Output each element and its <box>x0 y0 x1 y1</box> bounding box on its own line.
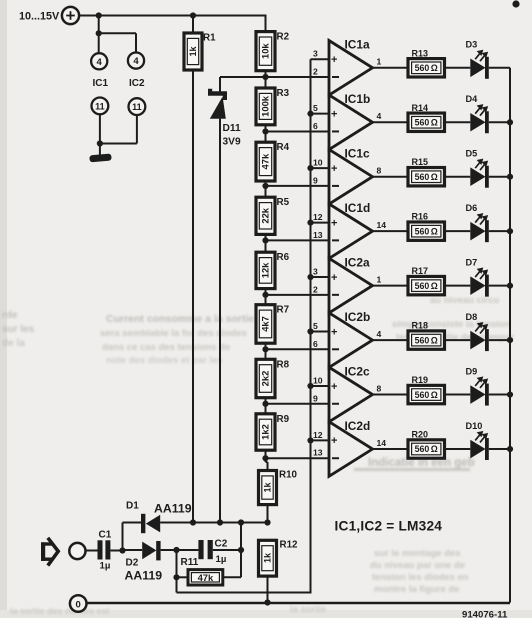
node: drawing number 914076-11 <box>462 610 508 618</box>
svg-text:R19: R19 <box>412 375 429 385</box>
svg-text:simple consiste la tension: simple consiste la tension <box>392 319 510 330</box>
svg-text:4k7: 4k7 <box>260 316 271 332</box>
svg-text:IC1a: IC1a <box>345 38 371 52</box>
junction: node A (detector output) <box>173 547 179 553</box>
svg-text:+: + <box>331 381 337 393</box>
svg-text:R2: R2 <box>277 32 290 43</box>
wire: LED D3 cathode to right bus <box>489 67 510 69</box>
resistor R4 <box>256 131 290 185</box>
wire: LED D8 cathode to right bus <box>489 337 513 343</box>
wire: - input pin 9 of IC2c from ladder tap <box>266 393 330 404</box>
wire: + input pin 12 of IC1d <box>307 212 329 226</box>
junction: node B riser / detector line <box>238 519 244 525</box>
wire: R20 to LED D10 <box>445 448 471 450</box>
svg-text:47k: 47k <box>198 572 214 583</box>
junction: zener / detector line <box>217 519 223 525</box>
svg-text:13: 13 <box>313 448 323 458</box>
svg-text:+: + <box>331 435 337 447</box>
wire: + input pin 5 of IC1b <box>307 103 329 117</box>
wire: - input pin 2 of IC1a from ladder tap <box>266 67 330 78</box>
svg-text:C1: C1 <box>99 530 112 541</box>
svg-text:IC2: IC2 <box>129 78 145 89</box>
svg-text:R6: R6 <box>277 252 290 263</box>
svg-text:D11: D11 <box>223 123 241 134</box>
wire: D2 cathode to node A <box>161 549 177 551</box>
wire: zener anode to D1 output line <box>219 119 221 523</box>
op-amp IC1c <box>329 147 373 205</box>
svg-text:100k: 100k <box>260 95 271 117</box>
svg-text:11: 11 <box>95 101 105 111</box>
svg-text:R7: R7 <box>277 305 290 316</box>
svg-text:6: 6 <box>313 339 318 349</box>
svg-text:1k: 1k <box>188 46 198 57</box>
zener diode D11 3V9 <box>208 89 241 148</box>
svg-text:2: 2 <box>313 284 318 294</box>
svg-text:10k: 10k <box>260 43 271 59</box>
svg-text:47k: 47k <box>260 153 271 169</box>
svg-text:IC1: IC1 <box>93 78 109 89</box>
svg-text:4: 4 <box>377 329 382 339</box>
resistor R3 <box>256 77 290 131</box>
svg-text:11: 11 <box>132 102 142 112</box>
op-amp IC2a <box>329 255 373 313</box>
wire: ladder top tap to zener D11 <box>220 77 266 92</box>
svg-text:rde: rde <box>2 310 18 321</box>
svg-text:R15: R15 <box>412 157 429 167</box>
svg-text:12k: 12k <box>260 262 271 278</box>
resistor R15 560 ohm <box>408 157 445 186</box>
resistor R10 <box>259 458 298 522</box>
svg-text:1k: 1k <box>263 552 273 563</box>
pin: IC2 pin 11 (GND) <box>129 98 146 115</box>
svg-text:8: 8 <box>377 383 382 393</box>
junction: +rail / IC supply branch <box>96 12 102 18</box>
svg-text:560 Ω: 560 Ω <box>415 281 438 291</box>
op-amp IC1b <box>329 92 373 150</box>
wire: output pin 4 of IC1b <box>373 111 409 122</box>
svg-text:4: 4 <box>377 111 382 121</box>
svg-text:6: 6 <box>313 121 318 131</box>
svg-text:D7: D7 <box>466 257 478 267</box>
svg-text:AA119: AA119 <box>125 569 163 583</box>
wire: R11 right to node B riser <box>223 523 241 578</box>
svg-text:R13: R13 <box>412 48 429 58</box>
wire: - input pin 2 of IC2a from ladder tap <box>266 284 330 295</box>
wire: output pin 8 of IC2c <box>373 383 409 394</box>
wire: - input pin 13 of IC2d from ladder tap <box>266 448 330 459</box>
svg-text:4: 4 <box>97 57 103 68</box>
svg-text:+: + <box>331 272 337 284</box>
wire: R19 to LED D9 <box>445 394 471 396</box>
wire: R15 to LED D5 <box>445 176 471 178</box>
svg-text:D8: D8 <box>466 312 478 322</box>
wire: R14 to LED D4 <box>445 121 471 123</box>
svg-text:note des diodes et par les: note des diodes et par les <box>106 355 223 366</box>
op-amp IC1 (supply designator) <box>93 78 109 89</box>
LED D6 <box>466 203 489 242</box>
svg-text:au niveau circu: au niveau circu <box>430 295 499 306</box>
op-amp IC2 (supply designator) <box>129 78 145 89</box>
capacitor C2 1u <box>177 539 228 566</box>
junction: ladder tap R9 bottom (node to pin 13) <box>262 455 268 461</box>
svg-text:+: + <box>331 163 337 175</box>
svg-text:1k2: 1k2 <box>260 424 271 440</box>
wire: R18 to LED D8 <box>445 339 471 341</box>
svg-text:IC2d: IC2d <box>345 419 371 433</box>
op-amp IC1a <box>329 38 373 96</box>
svg-text:de la: de la <box>2 338 25 349</box>
svg-text:0: 0 <box>76 599 81 610</box>
wire: LED D9 cathode to right bus <box>489 391 513 397</box>
svg-text:IC2c: IC2c <box>345 364 371 378</box>
svg-text:5: 5 <box>313 103 318 113</box>
wire: LED cathode bus to ground line <box>509 68 511 603</box>
LED D9 <box>466 366 489 405</box>
svg-text:D6: D6 <box>466 203 478 213</box>
svg-text:10: 10 <box>313 375 323 385</box>
wire: R17 to LED D7 <box>445 285 471 287</box>
resistor R7 <box>256 295 290 349</box>
svg-text:560 Ω: 560 Ω <box>415 226 438 236</box>
node: + supply terminal <box>62 7 79 24</box>
wire: output pin 8 of IC1c <box>373 166 409 177</box>
svg-text:2: 2 <box>313 67 318 77</box>
wire: IC pins 11 to ground <box>97 114 137 155</box>
node: 0V terminal <box>70 595 87 612</box>
svg-text:R1: R1 <box>203 33 216 44</box>
svg-text:2k2: 2k2 <box>260 371 271 387</box>
svg-text:IC2b: IC2b <box>345 310 371 324</box>
svg-text:12: 12 <box>313 430 323 440</box>
resistor R8 <box>256 349 290 403</box>
ground <box>89 154 112 163</box>
svg-text:13: 13 <box>313 230 323 240</box>
svg-text:R3: R3 <box>277 88 290 99</box>
svg-text:R20: R20 <box>412 430 429 440</box>
junction: ladder tap R7 bottom (node to pin 6) <box>262 346 268 352</box>
resistor R1 <box>184 16 216 71</box>
junction: ladder tap R5 bottom (node to pin 13) <box>262 237 268 243</box>
capacitor C1 1u <box>98 530 112 572</box>
node: audio input symbol <box>41 538 58 566</box>
svg-text:4: 4 <box>133 56 139 67</box>
svg-text:sur les: sur les <box>2 324 35 335</box>
svg-text:du niveau par une de: du niveau par une de <box>370 560 465 571</box>
svg-text:914076-11: 914076-11 <box>462 610 508 618</box>
junction: R10/R12 / detector line <box>264 519 270 525</box>
LED D5 <box>466 149 489 188</box>
junction: ladder tap R2 bottom (node to pin 2) <box>262 74 268 80</box>
svg-text:+: + <box>331 326 337 338</box>
svg-text:560 Ω: 560 Ω <box>415 444 438 454</box>
svg-text:8: 8 <box>377 166 382 176</box>
resistor R5 <box>256 186 290 240</box>
wire: output pin 1 of IC2a <box>373 274 409 285</box>
wire: LED D6 cathode to right bus <box>489 228 513 234</box>
svg-text:D4: D4 <box>466 94 479 104</box>
wire: + input pin 3 of IC2a <box>307 267 329 281</box>
LED D8 <box>466 312 489 351</box>
svg-text:560 Ω: 560 Ω <box>415 117 438 127</box>
wire: + input pin 10 of IC2c <box>307 375 329 389</box>
svg-text:IC1c: IC1c <box>345 147 371 161</box>
junction: ladder tap R8 bottom (node to pin 9) <box>262 401 268 407</box>
svg-text:R16: R16 <box>412 212 429 222</box>
svg-text:9: 9 <box>313 175 318 185</box>
svg-text:IC1,IC2 = LM324: IC1,IC2 = LM324 <box>335 519 443 534</box>
LED D4 <box>466 94 489 133</box>
junction: node A / R11 left <box>173 574 179 580</box>
node: input terminal <box>69 543 85 559</box>
svg-text:IC2a: IC2a <box>345 255 371 269</box>
pin: IC2 pin 4 (V+) <box>128 53 144 69</box>
op-amp IC2c <box>329 364 373 422</box>
wire: output pin 14 of IC2d <box>373 438 409 449</box>
resistor R9 <box>256 404 290 458</box>
svg-text:+: + <box>331 54 337 66</box>
svg-text:R9: R9 <box>277 414 290 425</box>
wire: LED D10 cathode to right bus <box>489 446 513 452</box>
wire: + input pin 3 of IC1a <box>311 49 330 60</box>
wire: - input pin 6 of IC1b from ladder tap <box>266 121 330 132</box>
svg-text:IC1d: IC1d <box>345 201 371 215</box>
wire: + input pin 10 of IC1c <box>307 158 329 172</box>
svg-text:14: 14 <box>377 220 387 230</box>
wire: R13 to LED D3 <box>445 67 471 69</box>
svg-text:R11: R11 <box>181 557 199 568</box>
svg-text:3V9: 3V9 <box>223 137 241 148</box>
wire: supply to IC1/IC2 pin 4 <box>96 16 136 54</box>
svg-text:sur le montage des: sur le montage des <box>374 548 461 559</box>
wire: D1 anode along detector line to R10/R12 node <box>160 522 267 524</box>
svg-text:R4: R4 <box>277 142 290 153</box>
resistor R6 <box>256 240 290 294</box>
resistor R20 560 ohm <box>408 430 445 459</box>
svg-text:1µ: 1µ <box>100 561 111 572</box>
LED D3 <box>466 40 489 79</box>
junction: ladder tap R3 bottom (node to pin 6) <box>262 128 268 134</box>
svg-text:1µ: 1µ <box>216 554 227 565</box>
op-amp IC1d <box>329 201 373 259</box>
junction: R12 / ground line <box>264 599 270 605</box>
wire: R1 bottom to D1 output line <box>192 70 194 523</box>
wire: output pin 1 of IC1a <box>373 57 409 68</box>
wire: +rail from terminal to R2 <box>79 16 265 32</box>
pin: IC1 pin 11 (GND) <box>92 98 109 115</box>
wire: - input pin 9 of IC1c from ladder tap <box>266 175 330 186</box>
resistor R18 560 ohm <box>408 321 445 350</box>
svg-text:R14: R14 <box>412 103 429 113</box>
pin: IC1 pin 4 (V+) <box>91 53 107 69</box>
svg-text:Current consomme a la sortie: Current consomme a la sortie <box>106 313 254 325</box>
wire: LED D4 cathode to right bus <box>489 119 513 125</box>
svg-text:R17: R17 <box>412 266 429 276</box>
svg-text:1: 1 <box>377 274 382 284</box>
resistor R13 560 ohm <box>408 48 445 77</box>
diode D1 AA119 <box>126 501 192 534</box>
node: device note IC1,IC2 = LM324 <box>335 519 443 534</box>
svg-text:R8: R8 <box>277 359 290 370</box>
svg-text:sera semblable la for des diod: sera semblable la for des diodes <box>100 328 247 339</box>
svg-text:+: + <box>331 108 337 120</box>
svg-text:12: 12 <box>313 212 323 222</box>
svg-text:D9: D9 <box>466 366 478 376</box>
svg-text:tension les diodes en: tension les diodes en <box>372 572 469 583</box>
junction: +rail / R1 branch <box>190 12 196 18</box>
op-amp IC2b <box>329 310 373 368</box>
wire: C1 to D1/D2 branch node <box>110 523 141 554</box>
svg-text:R5: R5 <box>277 197 290 208</box>
resistor R16 560 ohm <box>408 212 445 241</box>
svg-text:la sortie: la sortie <box>290 604 326 615</box>
diode D2 AA119 <box>123 541 163 583</box>
svg-text:dans ce cas des tensions de: dans ce cas des tensions de <box>102 342 230 353</box>
LED D7 <box>466 257 489 296</box>
wire: - input pin 13 of IC1d from ladder tap <box>266 230 330 241</box>
svg-text:560 Ω: 560 Ω <box>415 335 438 345</box>
svg-text:D5: D5 <box>466 149 478 159</box>
svg-text:10...15V: 10...15V <box>19 11 60 23</box>
svg-text:22k: 22k <box>260 207 271 223</box>
svg-text:D3: D3 <box>466 40 478 50</box>
svg-text:560 Ω: 560 Ω <box>415 390 438 400</box>
junction: ladder tap R4 bottom (node to pin 9) <box>262 183 268 189</box>
resistor R2 <box>256 32 290 77</box>
resistor R19 560 ohm <box>408 375 445 404</box>
svg-text:+: + <box>331 217 337 229</box>
svg-text:14: 14 <box>377 438 387 448</box>
svg-text:9: 9 <box>313 393 318 403</box>
resistor R17 560 ohm <box>408 266 445 295</box>
wire: LED D7 cathode to right bus <box>489 283 513 289</box>
svg-text:D2: D2 <box>126 558 139 569</box>
wire: + input pin 5 of IC2b <box>307 321 329 335</box>
svg-text:560 Ω: 560 Ω <box>415 63 438 73</box>
LED D10 <box>466 421 489 460</box>
wire: + input pin 12 of IC2d <box>307 430 329 444</box>
wire: output pin 4 of IC2b <box>373 329 409 340</box>
resistor R12 <box>259 540 299 603</box>
wire: - input pin 6 of IC2b from ladder tap <box>266 339 330 350</box>
svg-text:10: 10 <box>313 158 323 168</box>
wire: R16 to LED D6 <box>445 230 471 232</box>
svg-text:D1: D1 <box>126 501 139 512</box>
wire: C2 right plate to node B <box>213 547 244 553</box>
svg-text:1: 1 <box>377 57 382 67</box>
wire: input terminal to C1 <box>86 550 98 552</box>
node: page mark (top-right) <box>512 0 519 7</box>
svg-text:3: 3 <box>313 49 318 59</box>
wire: ground line <box>87 602 511 604</box>
svg-text:3: 3 <box>313 267 318 277</box>
wire: node A down to signal line <box>176 550 178 593</box>
svg-text:R18: R18 <box>412 321 429 331</box>
wire: output pin 14 of IC1d <box>373 220 409 231</box>
svg-text:la sortie des diodes est: la sortie des diodes est <box>10 606 110 616</box>
wire: signal bus to + inputs (vertical) <box>177 59 311 592</box>
svg-text:1k: 1k <box>263 482 273 493</box>
svg-text:C2: C2 <box>215 539 228 550</box>
svg-text:R12: R12 <box>280 540 299 551</box>
svg-text:D10: D10 <box>466 421 483 431</box>
svg-text:5: 5 <box>313 321 318 331</box>
resistor R14 560 ohm <box>408 103 445 132</box>
svg-text:montre la figure de: montre la figure de <box>374 584 460 595</box>
svg-text:R10: R10 <box>279 470 298 481</box>
junction: ladder tap R6 bottom (node to pin 2) <box>262 292 268 298</box>
junction: R1 / detector line <box>190 519 196 525</box>
resistor R11 47k <box>177 557 223 585</box>
svg-text:560 Ω: 560 Ω <box>415 172 438 182</box>
svg-text:IC1b: IC1b <box>345 92 371 106</box>
op-amp IC2d <box>329 419 373 477</box>
wire: LED D5 cathode to right bus <box>489 174 513 180</box>
svg-text:AA119: AA119 <box>154 502 192 516</box>
